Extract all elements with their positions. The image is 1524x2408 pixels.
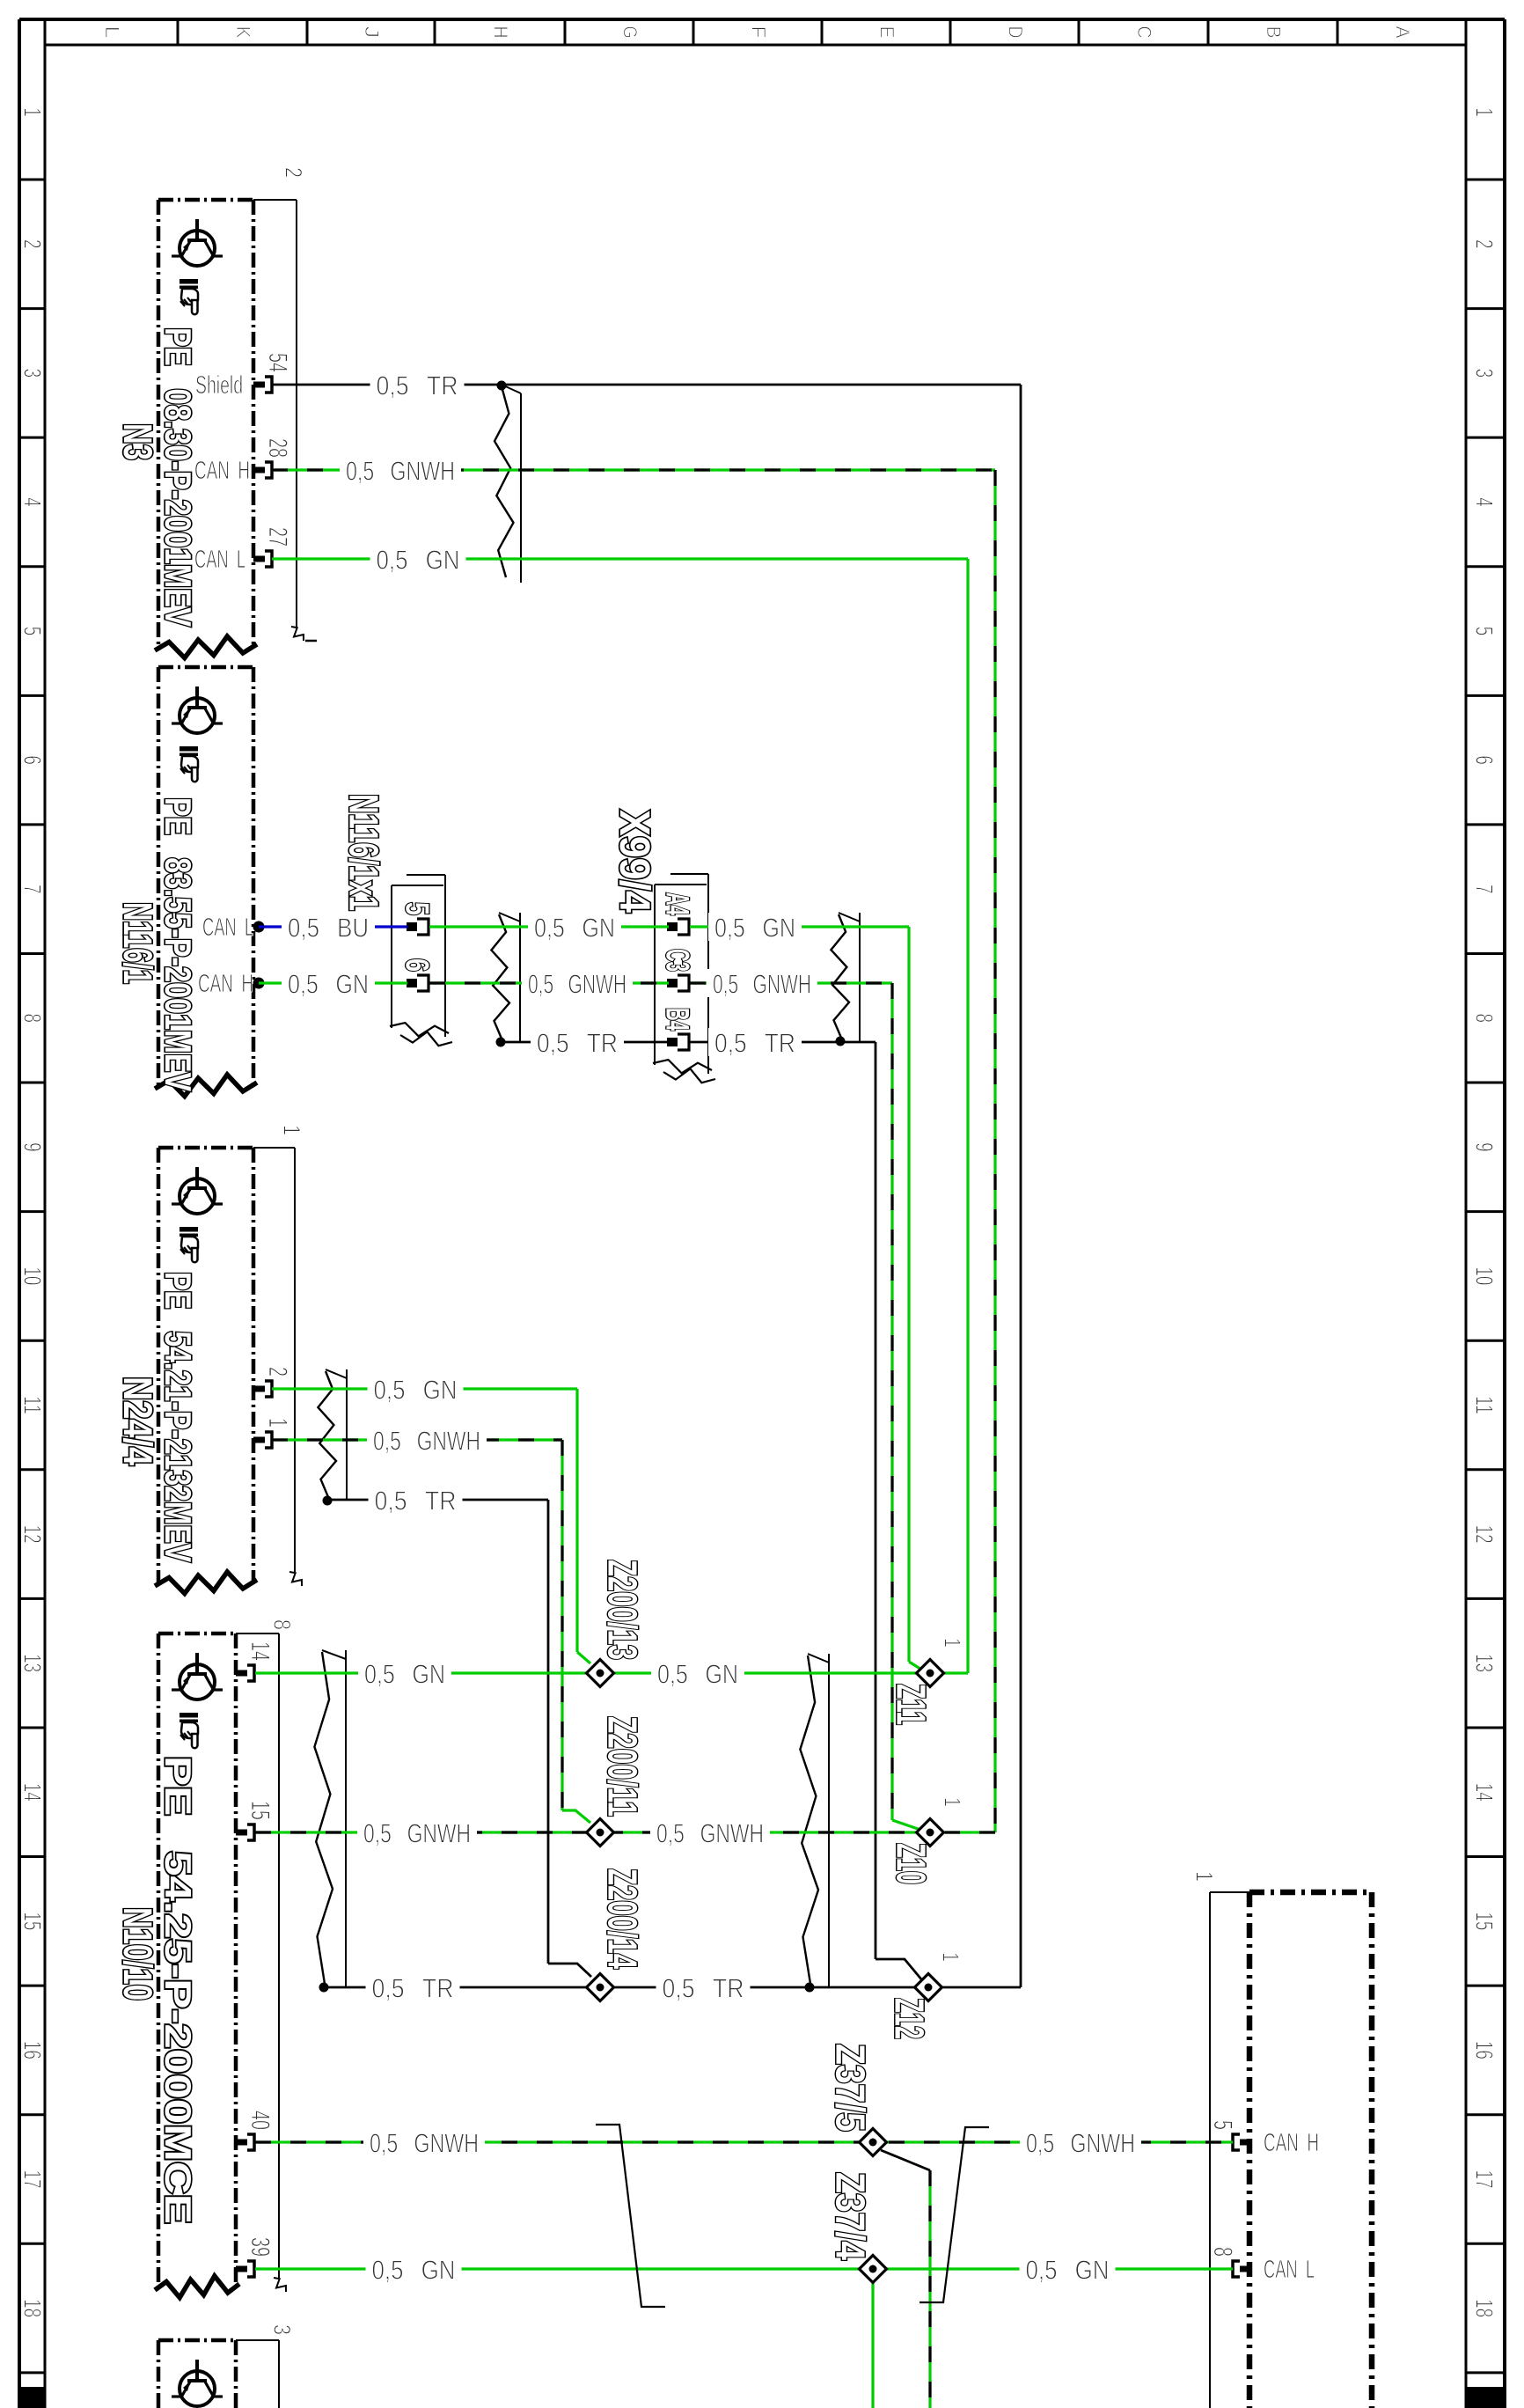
svg-text:2: 2: [19, 239, 47, 249]
svg-text:Z10: Z10: [889, 1843, 934, 1884]
svg-text:14: 14: [245, 1641, 275, 1661]
svg-text:0,5 GN: 0,5 GN: [377, 545, 460, 576]
svg-text:27: 27: [263, 527, 292, 547]
svg-text:0,5 GNWH: 0,5 GNWH: [1026, 2128, 1135, 2159]
svg-text:CAN H: CAN H: [1264, 2129, 1319, 2157]
svg-text:8: 8: [1471, 1014, 1498, 1024]
svg-text:Shield: Shield: [195, 371, 243, 400]
svg-text:10: 10: [19, 1266, 47, 1285]
svg-text:0,5 TR: 0,5 TR: [375, 1486, 457, 1516]
svg-text:40: 40: [245, 2111, 275, 2130]
svg-text:13: 13: [19, 1654, 47, 1672]
svg-text:PE 83.55-P-2001MEV: PE 83.55-P-2001MEV: [158, 797, 199, 1091]
svg-text:Z200/13: Z200/13: [600, 1560, 646, 1660]
svg-text:0,5 GN: 0,5 GN: [288, 969, 369, 1000]
svg-text:0,5 GNWH: 0,5 GNWH: [370, 2128, 479, 2159]
svg-text:54: 54: [263, 353, 292, 372]
svg-text:28: 28: [263, 438, 292, 458]
svg-text:C: C: [1133, 26, 1155, 39]
svg-text:1: 1: [940, 1638, 966, 1648]
svg-text:K: K: [232, 26, 254, 39]
svg-text:18: 18: [19, 2299, 47, 2317]
svg-text:CAN H: CAN H: [194, 457, 250, 485]
svg-text:0,5 TR: 0,5 TR: [714, 1028, 795, 1059]
svg-text:8: 8: [1208, 2247, 1237, 2257]
svg-text:16: 16: [19, 2041, 47, 2059]
svg-text:9: 9: [1471, 1142, 1498, 1152]
svg-text:1: 1: [19, 107, 47, 117]
svg-text:0,5 GNWH: 0,5 GNWH: [656, 1818, 764, 1849]
svg-text:6: 6: [19, 755, 47, 765]
svg-text:9: 9: [19, 1142, 47, 1152]
svg-text:CAN H: CAN H: [198, 970, 253, 998]
svg-text:E: E: [876, 26, 898, 39]
svg-text:PE 54.21-P-2132MEV: PE 54.21-P-2132MEV: [158, 1272, 199, 1562]
svg-text:8: 8: [19, 1014, 47, 1024]
svg-text:0,5 GN: 0,5 GN: [364, 1659, 445, 1690]
svg-text:Z37/4: Z37/4: [828, 2172, 874, 2260]
svg-text:Z200/14: Z200/14: [600, 1868, 646, 1969]
svg-text:CAN L: CAN L: [202, 914, 253, 942]
svg-text:0,5 GN: 0,5 GN: [374, 1375, 458, 1406]
svg-text:0,5 GN: 0,5 GN: [657, 1659, 738, 1690]
svg-text:12: 12: [19, 1525, 47, 1544]
svg-text:18: 18: [1471, 2299, 1498, 2317]
svg-text:39: 39: [245, 2237, 275, 2257]
svg-text:Z200/11: Z200/11: [600, 1716, 646, 1817]
svg-text:4: 4: [1471, 497, 1498, 507]
svg-text:1: 1: [1471, 107, 1498, 117]
svg-text:0,5 BU: 0,5 BU: [288, 913, 369, 943]
svg-text:0,5 TR: 0,5 TR: [537, 1028, 618, 1059]
svg-text:15: 15: [1471, 1912, 1498, 1930]
svg-text:8: 8: [268, 1619, 295, 1630]
svg-text:A4: A4: [660, 892, 696, 915]
svg-text:7: 7: [1471, 885, 1498, 894]
svg-text:N116/1x1: N116/1x1: [341, 794, 387, 911]
svg-text:10: 10: [1471, 1266, 1498, 1285]
svg-text:5: 5: [399, 902, 436, 915]
svg-text:3: 3: [19, 369, 47, 378]
svg-text:6: 6: [399, 958, 436, 972]
svg-text:Z12: Z12: [887, 1998, 933, 2039]
svg-text:0,5 GN: 0,5 GN: [372, 2255, 456, 2286]
svg-text:0,5 GNWH: 0,5 GNWH: [363, 1818, 471, 1849]
svg-text:2: 2: [1471, 239, 1498, 249]
svg-text:A: A: [1392, 26, 1414, 39]
svg-text:B: B: [1263, 26, 1285, 39]
svg-text:1: 1: [938, 1952, 964, 1962]
svg-text:1: 1: [940, 1797, 966, 1807]
svg-text:12: 12: [1471, 1525, 1498, 1544]
svg-text:5: 5: [1208, 2120, 1237, 2130]
svg-text:17: 17: [19, 2169, 47, 2188]
svg-text:N3: N3: [115, 423, 160, 460]
svg-text:0,5 GNWH: 0,5 GNWH: [528, 969, 626, 1000]
svg-text:2: 2: [280, 167, 306, 178]
svg-text:N24/4: N24/4: [115, 1377, 160, 1465]
svg-text:7: 7: [19, 885, 47, 894]
svg-text:G: G: [619, 26, 641, 39]
svg-text:0,5 GN: 0,5 GN: [714, 913, 795, 943]
svg-text:5: 5: [1471, 627, 1498, 636]
svg-text:L: L: [101, 26, 123, 39]
svg-text:2: 2: [263, 1367, 292, 1377]
svg-text:J: J: [361, 26, 383, 39]
svg-text:D: D: [1005, 26, 1027, 39]
svg-text:C3: C3: [660, 949, 696, 972]
svg-text:4: 4: [19, 497, 47, 507]
svg-text:0,5 TR: 0,5 TR: [377, 371, 458, 401]
svg-text:14: 14: [19, 1783, 47, 1802]
svg-text:PE 54.25-P-2000MCE: PE 54.25-P-2000MCE: [158, 1756, 199, 2224]
svg-text:0,5 GNWH: 0,5 GNWH: [713, 969, 811, 1000]
svg-text:CAN L: CAN L: [194, 546, 245, 574]
svg-text:13: 13: [1471, 1654, 1498, 1672]
svg-text:11: 11: [19, 1396, 47, 1414]
svg-text:0,5 GN: 0,5 GN: [1026, 2255, 1110, 2286]
svg-text:H: H: [490, 26, 512, 39]
svg-text:5: 5: [19, 627, 47, 636]
svg-text:0,5 TR: 0,5 TR: [372, 1973, 454, 2004]
svg-text:1: 1: [278, 1125, 304, 1135]
svg-text:0,5 GNWH: 0,5 GNWH: [373, 1426, 480, 1457]
svg-text:3: 3: [1471, 369, 1498, 378]
svg-text:1: 1: [1191, 1871, 1217, 1882]
svg-text:CAN L: CAN L: [1264, 2256, 1315, 2284]
svg-text:0,5 GN: 0,5 GN: [534, 913, 615, 943]
svg-text:14: 14: [1471, 1783, 1498, 1802]
svg-text:17: 17: [1471, 2169, 1498, 2188]
svg-text:15: 15: [245, 1801, 275, 1820]
svg-text:6: 6: [1471, 755, 1498, 765]
svg-text:11: 11: [1471, 1396, 1498, 1414]
svg-text:1: 1: [263, 1418, 292, 1428]
svg-text:F: F: [748, 26, 770, 39]
svg-text:B4: B4: [660, 1008, 696, 1031]
svg-text:N10/10: N10/10: [115, 1907, 160, 2001]
svg-text:3: 3: [268, 2324, 295, 2335]
svg-text:PE 08.30-P-2001MEV: PE 08.30-P-2001MEV: [158, 327, 199, 627]
svg-text:0,5 TR: 0,5 TR: [663, 1973, 744, 2004]
svg-text:0,5 GNWH: 0,5 GNWH: [346, 456, 455, 487]
svg-text:N116/1: N116/1: [115, 902, 160, 984]
svg-text:15: 15: [19, 1912, 47, 1930]
svg-text:Z11: Z11: [889, 1684, 934, 1725]
svg-text:Z37/5: Z37/5: [828, 2044, 874, 2132]
svg-text:X99/4: X99/4: [611, 810, 657, 913]
svg-text:16: 16: [1471, 2041, 1498, 2059]
